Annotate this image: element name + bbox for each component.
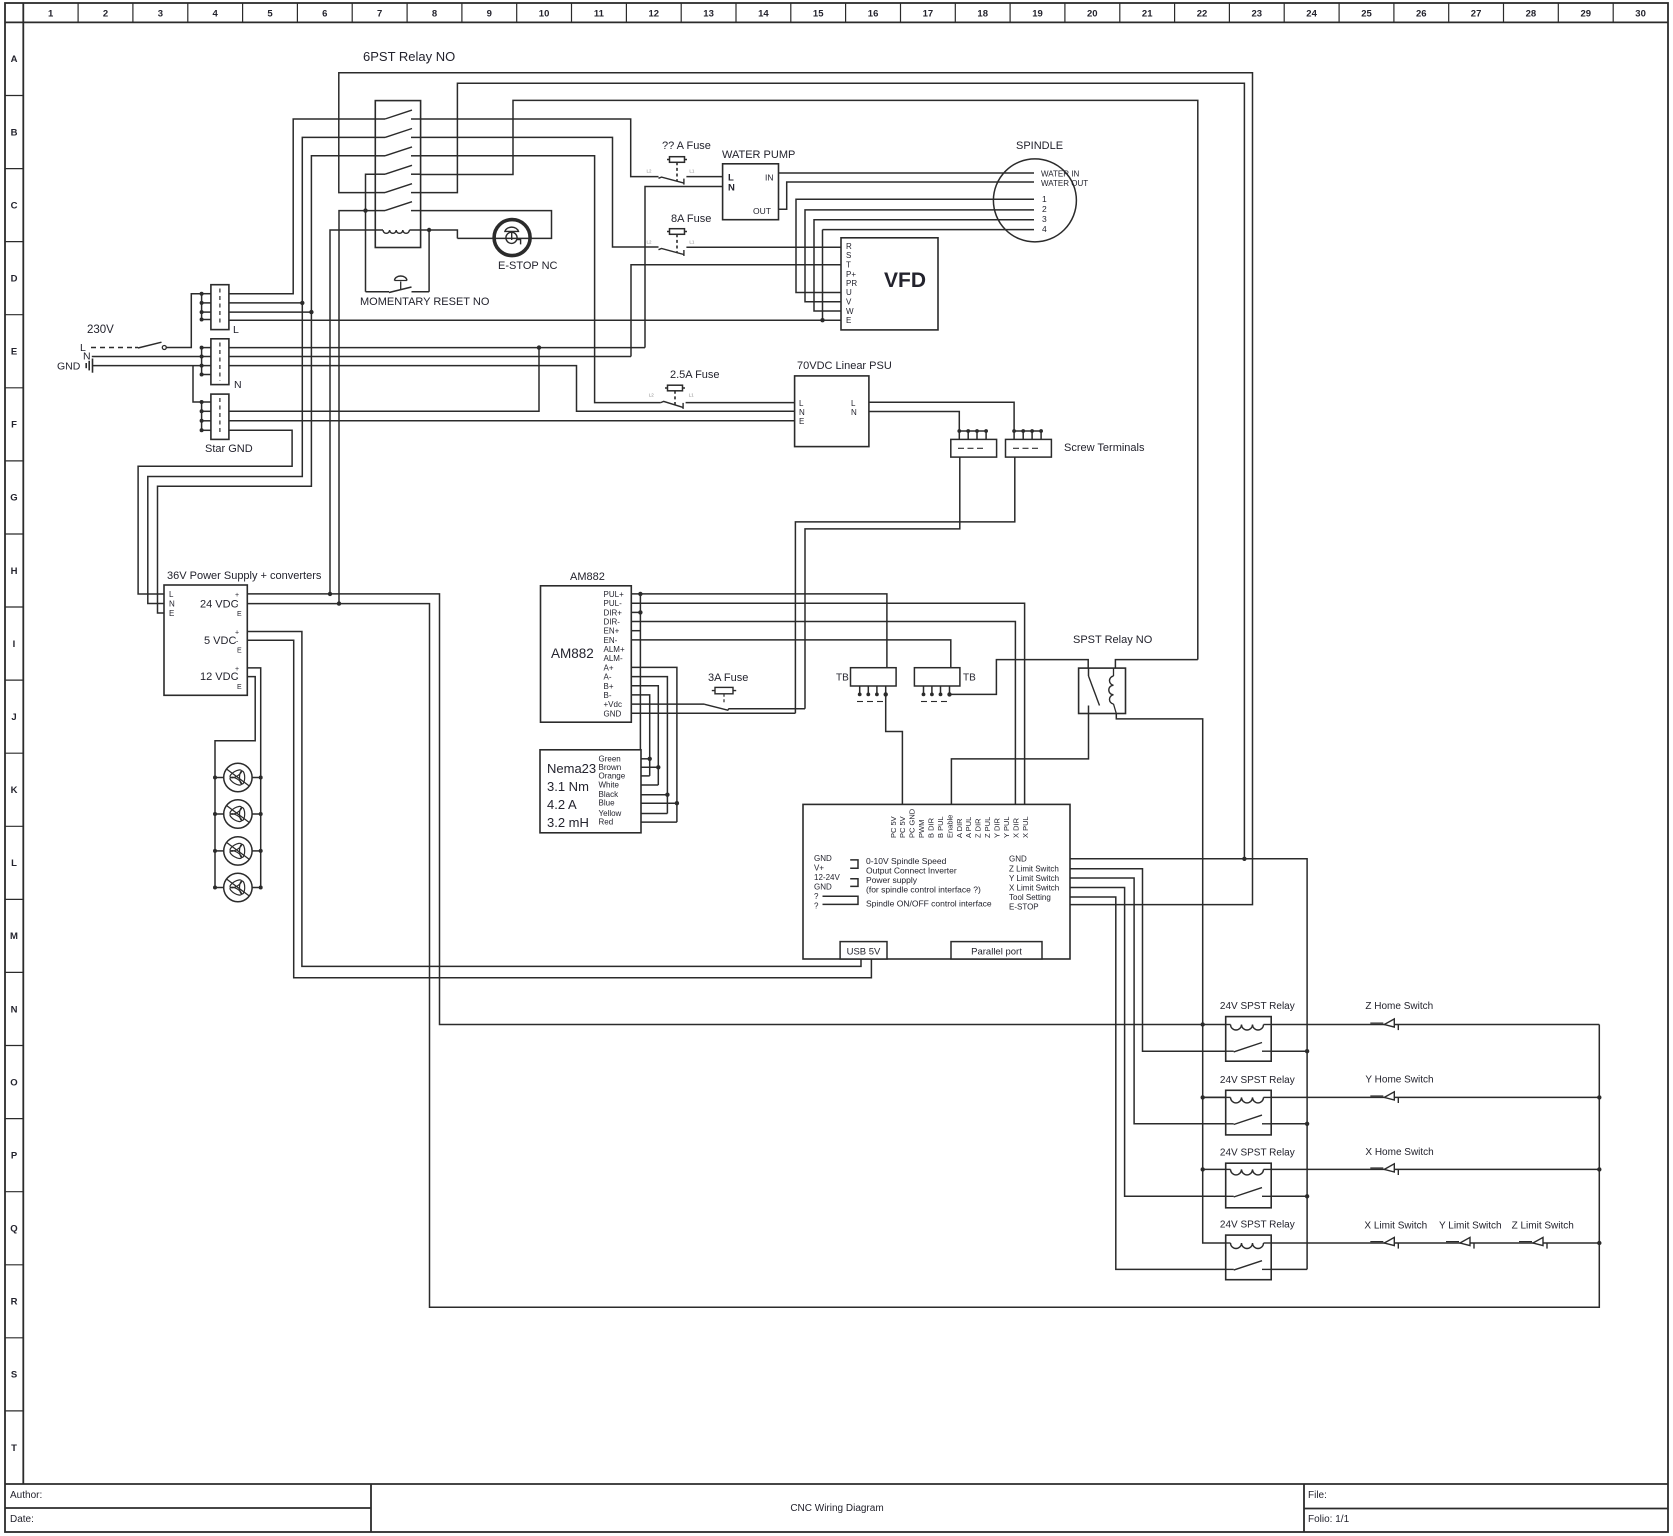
wire relay1 contact out (1271, 1050, 1307, 1052)
svg-text:+: + (235, 630, 239, 637)
wire VFD W to spindle 3 (814, 220, 1034, 311)
wire 6PST contact6 left to 24VDC minus (339, 211, 375, 604)
svg-text:GND: GND (604, 709, 622, 718)
wire 6PST coil out to E-STOP (409, 230, 457, 238)
svg-text:L: L (233, 324, 239, 336)
svg-text:Folio: 1/1: Folio: 1/1 (1308, 1514, 1350, 1525)
svg-text:13: 13 (703, 9, 714, 20)
wire ??A fuse to water pump L (686, 176, 722, 178)
component 36V Power Supply + converters (164, 570, 322, 695)
svg-text:N: N (83, 351, 91, 363)
svg-text:5: 5 (267, 9, 273, 20)
svg-text:O: O (10, 1077, 17, 1088)
svg-text:Z DIR: Z DIR (974, 818, 983, 838)
svg-text:6: 6 (322, 9, 327, 20)
component Parallel port (951, 942, 1042, 959)
wire AM882 DIR- to breakout X DIR (631, 622, 1015, 805)
svg-text:16: 16 (868, 9, 879, 20)
svg-text:11: 11 (594, 9, 605, 20)
svg-text:10: 10 (539, 9, 550, 20)
wire N terminal pin1 row (229, 347, 645, 349)
svg-text:N: N (234, 379, 242, 391)
svg-text:N: N (799, 408, 805, 417)
wire breakout X Limit Switch to relay3 contact (1070, 888, 1226, 1197)
wire momentary reset left riser to contact4 (366, 174, 376, 292)
svg-text:L: L (11, 858, 17, 869)
svg-text:N: N (169, 600, 175, 609)
component Nema23 stepper motor (540, 750, 641, 833)
wire Star GND pin2 riser to N row (229, 348, 539, 412)
wire 5VDC minus to USB 5V (247, 640, 871, 978)
svg-text:W: W (846, 307, 854, 316)
svg-text:M: M (10, 931, 18, 942)
wire mains GND row (93, 365, 202, 367)
svg-text:L2: L2 (649, 393, 655, 398)
wire AM882 A- to Nema23 Black/Yellow (631, 677, 667, 814)
svg-text:B PUL: B PUL (936, 816, 945, 838)
svg-text:A DIR: A DIR (955, 818, 964, 838)
svg-text:22: 22 (1197, 9, 1208, 20)
svg-text:L1: L1 (689, 240, 695, 245)
svg-text:Power supply: Power supply (866, 875, 918, 885)
component SPINDLE (993, 140, 1088, 242)
svg-text:PUL+: PUL+ (604, 590, 625, 599)
svg-text:AM882: AM882 (551, 646, 594, 661)
svg-text:B+: B+ (604, 682, 614, 691)
svg-text:(for spindle control interface: (for spindle control interface ?) (866, 885, 981, 895)
component USB 5V port (840, 942, 887, 959)
wire relay4 contact out (1271, 1268, 1307, 1270)
svg-text:WATER IN: WATER IN (1041, 170, 1079, 179)
wire W2 6PST contact5 right loop to breakout GND (421, 83, 1245, 859)
svg-text:T: T (11, 1443, 17, 1454)
svg-text:A: A (11, 54, 18, 65)
wire 6PST contact1 left to L terminal pin1 (229, 119, 375, 294)
svg-text:2.5A Fuse: 2.5A Fuse (670, 369, 720, 381)
wire AM882 B+ to Nema23 Brown/White (631, 686, 658, 785)
wire AM882 A+ to Nema23 Blue/Red (631, 667, 677, 822)
wire 6PST contact1 to ?? A fuse (421, 119, 659, 177)
svg-text:3.2 mH: 3.2 mH (547, 815, 589, 830)
wire breakout Z Limit Switch to relay1 contact (1070, 869, 1226, 1051)
svg-text:28: 28 (1526, 9, 1537, 20)
relay 24V SPST Relay 2 (1220, 1075, 1295, 1135)
svg-text:N: N (728, 183, 735, 194)
svg-text:24V SPST Relay: 24V SPST Relay (1220, 1148, 1295, 1159)
svg-text:R: R (11, 1297, 18, 1308)
svg-text:+: + (235, 592, 239, 599)
svg-text:H: H (11, 566, 18, 577)
component U2 VFD (841, 238, 938, 330)
svg-text:X DIR: X DIR (1011, 817, 1020, 838)
svg-text:24V SPST Relay: 24V SPST Relay (1220, 1075, 1295, 1086)
wire Nema23 Brown stub (641, 766, 658, 768)
wire N terminal pin2 row to VFD S riser (229, 356, 631, 358)
wire relay4 coil to limit switch chain (1271, 1242, 1599, 1244)
wire Nema23 Yellow stub (641, 813, 667, 815)
component screw terminal ST1 (951, 429, 997, 457)
svg-text:SPST Relay NO: SPST Relay NO (1073, 634, 1153, 646)
svg-text:GND: GND (814, 883, 832, 892)
svg-text:8: 8 (432, 9, 437, 20)
wire AM882 DIR+ stub (631, 611, 640, 613)
svg-text:E-STOP NC: E-STOP NC (498, 260, 558, 272)
svg-text:EN+: EN+ (604, 627, 620, 636)
wire W1 6PST contact5 left loop to breakout E-STOP (339, 73, 1253, 905)
switch mains disconnect (135, 342, 166, 349)
svg-text:OUT: OUT (753, 206, 771, 216)
svg-text:24 VDC: 24 VDC (200, 599, 239, 611)
svg-text:27: 27 (1471, 9, 1482, 20)
svg-text:3.1 Nm: 3.1 Nm (547, 779, 589, 794)
svg-text:E: E (169, 609, 174, 618)
svg-text:Z Limit Switch: Z Limit Switch (1512, 1221, 1574, 1232)
svg-text:S: S (11, 1370, 17, 1381)
fuse F2 8A (647, 229, 695, 256)
wire AM882 EN- to TB2 (631, 640, 951, 668)
svg-text:SPINDLE: SPINDLE (1016, 140, 1063, 152)
svg-text:PR: PR (846, 279, 857, 288)
wire breakout Tool Setting to relay4 contact (1070, 897, 1226, 1269)
svg-text:3A Fuse: 3A Fuse (708, 672, 748, 684)
wire W3 6PST contact4 loop to SPST relay coil (421, 100, 1198, 659)
svg-text:3: 3 (158, 9, 163, 20)
wire AM882 PUL+ to TB1 and breakout PC 5V (631, 594, 887, 668)
svg-text:ALM+: ALM+ (604, 645, 625, 654)
svg-text:Z Home Switch: Z Home Switch (1365, 1001, 1433, 1012)
svg-text:Red: Red (599, 818, 614, 827)
wire 70VDC PSU L out to screw terminal 2 (869, 402, 1014, 431)
svg-text:EN-: EN- (604, 636, 618, 645)
wire 6PST contact2 to 8A fuse (421, 137, 659, 247)
svg-text:F: F (11, 420, 17, 431)
wire 2.5A fuse to 70VDC PSU L (686, 402, 795, 404)
svg-text:V: V (846, 298, 852, 307)
svg-text:2: 2 (1042, 204, 1047, 214)
svg-text:Screw Terminals: Screw Terminals (1064, 442, 1145, 454)
wire momentary reset right to coil node (428, 230, 430, 292)
wire TB2 pin4 to SPST relay switch (949, 686, 951, 694)
wire water pump N to N row (645, 187, 723, 348)
wire breakout Y Limit Switch to relay2 contact (1070, 878, 1226, 1124)
wire breakout GND row to relay return trunk (1070, 859, 1307, 1270)
svg-text:N: N (11, 1004, 18, 1015)
svg-text:E: E (11, 347, 17, 358)
svg-text:24V SPST Relay: 24V SPST Relay (1220, 1220, 1295, 1231)
wire VFD S to N row riser (631, 265, 841, 357)
svg-text:Output Connect Inverter: Output Connect Inverter (866, 866, 957, 876)
svg-text:B-: B- (604, 691, 612, 700)
relay 24V SPST Relay 1 (1220, 1001, 1295, 1061)
wire 6PST contact3 left via L terminal pin3 to 36V PSU E (158, 156, 376, 613)
wire Nema23 White stub (641, 784, 658, 786)
svg-text:?: ? (814, 892, 819, 901)
svg-text:PC GND: PC GND (908, 808, 917, 838)
wire 24V relay2 coil stub (1203, 1096, 1226, 1098)
svg-text:23: 23 (1252, 9, 1263, 20)
svg-text:E-STOP: E-STOP (1009, 903, 1039, 912)
wire mains L to L terminal (166, 294, 201, 348)
svg-text:15: 15 (813, 9, 824, 20)
svg-text:Star GND: Star GND (205, 443, 253, 455)
svg-text:9: 9 (487, 9, 492, 20)
wire mains L dashed lead (91, 347, 135, 349)
svg-text:GND: GND (1009, 855, 1027, 864)
component 70VDC Linear PSU (795, 360, 892, 447)
wire relay2 contact out (1271, 1123, 1307, 1125)
svg-text:G: G (10, 493, 17, 504)
svg-text:2: 2 (103, 9, 108, 20)
svg-text:X Home Switch: X Home Switch (1365, 1147, 1433, 1158)
svg-text:P: P (11, 1150, 18, 1161)
svg-text:Blue: Blue (599, 799, 616, 808)
svg-text:8A Fuse: 8A Fuse (671, 213, 711, 225)
svg-text:J: J (11, 712, 16, 723)
svg-text:T: T (846, 261, 851, 270)
svg-text:Parallel port: Parallel port (971, 947, 1022, 958)
svg-text:+: + (235, 666, 239, 673)
svg-text:AM882: AM882 (570, 571, 605, 583)
svg-text:E: E (799, 417, 804, 426)
wire 6PST coil left to 24VDC plus (330, 230, 383, 594)
svg-text:N: N (851, 408, 857, 417)
wire relay2 coil to Y home switch row (1271, 1096, 1599, 1098)
terminal block TB1 (836, 668, 896, 702)
wire GND row to 70VDC PSU N riser (229, 366, 795, 412)
wire 3A fuse out to screw terminal riser (728, 708, 805, 710)
svg-text:18: 18 (977, 9, 988, 20)
fan M4 (213, 873, 263, 901)
svg-text:PWM: PWM (917, 820, 926, 838)
svg-text:V+: V+ (814, 864, 824, 873)
svg-text:0-10V Spindle Speed: 0-10V Spindle Speed (866, 856, 947, 866)
fan M3 (213, 837, 263, 865)
svg-text:E: E (237, 648, 242, 655)
component WATER PUMP (722, 149, 795, 220)
relay K1 6PST body (375, 101, 420, 248)
svg-text:Nema23: Nema23 (547, 761, 596, 776)
svg-text:L1: L1 (689, 393, 695, 398)
svg-text:30: 30 (1635, 9, 1646, 20)
wire 12VDC plus to fan right rail (247, 668, 260, 888)
fuse F4 3A (705, 687, 737, 710)
svg-text:17: 17 (923, 9, 934, 20)
wire ST2 down to AM882 GND row (795, 457, 1014, 713)
svg-text:Author:: Author: (10, 1490, 42, 1501)
wire mains GND down to Star GND (193, 366, 202, 402)
svg-text:GND: GND (814, 854, 832, 863)
svg-text:12: 12 (649, 9, 660, 20)
svg-text:21: 21 (1142, 9, 1153, 20)
svg-text:CNC Wiring Diagram: CNC Wiring Diagram (790, 1503, 883, 1514)
wire SPST relay coil minus to 24V relay trunk (1116, 714, 1225, 1244)
svg-text:Y PUL: Y PUL (1002, 816, 1011, 838)
svg-text:WATER OUT: WATER OUT (1041, 179, 1088, 188)
svg-text:Q: Q (10, 1224, 17, 1235)
wire AM882 +Vdc to 3A fuse (631, 703, 704, 705)
wire AM882 GND to ST2 riser (631, 712, 795, 714)
wire AM882 EN+ stub (631, 630, 640, 632)
svg-text:?? A Fuse: ?? A Fuse (662, 140, 711, 152)
svg-text:TB: TB (836, 673, 849, 684)
svg-text:B DIR: B DIR (927, 817, 936, 838)
relay SPST Relay NO (1073, 634, 1153, 714)
svg-text:L: L (851, 399, 856, 408)
svg-text:L: L (169, 590, 174, 599)
fan M1 (213, 763, 263, 791)
svg-text:20: 20 (1087, 9, 1098, 20)
svg-text:Y Home Switch: Y Home Switch (1365, 1074, 1433, 1085)
svg-text:29: 29 (1581, 9, 1592, 20)
svg-text:1: 1 (48, 9, 54, 20)
component AM882 stepper driver (541, 571, 632, 722)
wire 70VDC PSU N out to screw terminal 1 (869, 412, 959, 432)
svg-text:TB: TB (963, 673, 976, 684)
svg-text:PC 5V: PC 5V (889, 816, 898, 838)
svg-text:+Vdc: +Vdc (604, 700, 622, 709)
svg-text:Tool Setting: Tool Setting (1009, 893, 1051, 902)
terminal block TB2 (914, 668, 976, 702)
wire AM882 B- to Nema23 Green/Orange (631, 695, 649, 776)
svg-text:24: 24 (1306, 9, 1317, 20)
svg-text:R: R (846, 242, 852, 251)
svg-text:DIR-: DIR- (604, 618, 621, 627)
wire SPST relay switch out to breakout Enable (951, 714, 1088, 805)
svg-text:Y Limit Switch: Y Limit Switch (1439, 1221, 1502, 1232)
wire water pump OUT to spindle WATER OUT (779, 182, 1035, 209)
wire relay2 coil row (1203, 1096, 1226, 1098)
svg-text:19: 19 (1032, 9, 1043, 20)
svg-text:Z Limit Switch: Z Limit Switch (1009, 865, 1059, 874)
svg-text:D: D (11, 274, 18, 285)
wire Star GND pin3 row to 70VDC PSU E (229, 420, 795, 422)
wire AM882 enable bar (639, 594, 641, 833)
wire Nema23 Blue stub (641, 802, 677, 804)
svg-text:L: L (799, 399, 804, 408)
svg-text:X Limit Switch: X Limit Switch (1364, 1221, 1427, 1232)
svg-text:USB 5V: USB 5V (847, 947, 881, 958)
svg-text:?: ? (814, 902, 819, 911)
svg-text:X Limit Switch: X Limit Switch (1009, 884, 1059, 893)
svg-text:File:: File: (1308, 1490, 1327, 1501)
wire AM882 PUL- to breakout X PUL (631, 603, 1024, 804)
svg-text:Y DIR: Y DIR (993, 818, 1002, 838)
svg-text:C: C (11, 200, 18, 211)
wire earth row to VFD E (229, 319, 841, 321)
wire Nema23 Orange stub (641, 775, 650, 777)
wire ST1 down to 3A fuse feed (805, 457, 960, 709)
svg-text:4: 4 (213, 9, 219, 20)
svg-text:A PUL: A PUL (964, 817, 973, 838)
svg-text:L2: L2 (647, 168, 653, 173)
svg-text:230V: 230V (87, 324, 114, 336)
svg-text:Date:: Date: (10, 1514, 34, 1525)
terminal block Star GND (200, 394, 253, 455)
svg-text:K: K (11, 785, 18, 796)
svg-text:Enable: Enable (945, 815, 954, 838)
svg-text:3: 3 (1042, 214, 1047, 224)
svg-text:DIR+: DIR+ (604, 608, 623, 617)
wire 5VDC plus to USB 5V (247, 632, 861, 967)
wire 6PST contact2 left via L terminal pin2 to 36V PSU N (148, 137, 375, 603)
wire 6PST contact3 to 2.5A fuse (421, 156, 661, 403)
svg-text:5 VDC: 5 VDC (204, 635, 236, 647)
svg-text:P+: P+ (846, 270, 856, 279)
svg-text:4.2 A: 4.2 A (547, 797, 577, 812)
svg-text:A-: A- (604, 673, 612, 682)
svg-text:24V SPST Relay: 24V SPST Relay (1220, 1001, 1295, 1012)
svg-text:VFD: VFD (884, 269, 926, 292)
svg-text:U: U (846, 288, 852, 297)
svg-text:I: I (13, 639, 16, 650)
wire mains N (92, 356, 202, 358)
wire 8A fuse to VFD R (686, 246, 841, 248)
wire 24V relay3 coil stub (1203, 1168, 1226, 1170)
wire SPST relay coil plus riser (1115, 660, 1197, 669)
wire Nema23 Red stub (641, 821, 677, 823)
svg-text:12 VDC: 12 VDC (200, 671, 239, 683)
wire relay1 coil to Z home switch row (1271, 1024, 1599, 1026)
switch MOMENTARY RESET NO (366, 276, 430, 293)
svg-text:Spindle ON/OFF control interfa: Spindle ON/OFF control interface (866, 899, 992, 909)
svg-text:E: E (846, 316, 851, 325)
svg-text:ALM-: ALM- (604, 654, 623, 663)
svg-text:Z PUL: Z PUL (983, 817, 992, 838)
switch E-STOP NC (494, 220, 530, 256)
svg-text:White: White (599, 781, 620, 790)
svg-text:MOMENTARY RESET NO: MOMENTARY RESET NO (360, 296, 490, 308)
wire 6PST contact6 to E-STOP loop (421, 211, 552, 239)
svg-text:Y Limit Switch: Y Limit Switch (1009, 874, 1059, 883)
component screw terminal ST2 (1006, 429, 1052, 457)
wire spindle 4 riser to earth row (823, 229, 1035, 231)
svg-text:GND: GND (57, 361, 81, 373)
wire water pump IN to spindle WATER IN (779, 172, 1035, 174)
wire Nema23 Black stub (641, 794, 667, 796)
svg-text:12-24V: 12-24V (814, 873, 840, 882)
svg-text:36V Power Supply + converters: 36V Power Supply + converters (167, 570, 322, 582)
svg-text:WATER PUMP: WATER PUMP (722, 149, 795, 161)
svg-text:B: B (11, 127, 18, 138)
svg-text:E: E (237, 684, 242, 691)
wire VFD V to spindle 2 (805, 210, 1034, 302)
wire relay3 contact out (1271, 1195, 1307, 1197)
wire 24VDC minus to bottom return rail (247, 604, 1599, 1308)
terminal block N (200, 339, 242, 391)
svg-text:S: S (846, 251, 851, 260)
wire VFD U to spindle 1 (796, 199, 1034, 292)
wire Nema23 Green stub (641, 758, 650, 760)
component breakout board (803, 804, 1070, 959)
svg-text:X PUL: X PUL (1021, 816, 1030, 838)
wire 12VDC minus to fan left rail (215, 677, 255, 888)
svg-text:14: 14 (758, 9, 769, 20)
svg-text:26: 26 (1416, 9, 1427, 20)
svg-text:4: 4 (1042, 224, 1047, 234)
relay 24V SPST Relay 3 (1220, 1148, 1295, 1208)
svg-text:A+: A+ (604, 663, 614, 672)
svg-text:7: 7 (377, 9, 382, 20)
svg-text:L2: L2 (647, 240, 653, 245)
svg-text:Orange: Orange (599, 771, 626, 780)
fuse F3 2.5A (649, 385, 694, 409)
wire relay3 coil to X home switch row (1271, 1168, 1599, 1170)
svg-text:IN: IN (765, 173, 774, 183)
relay 24V SPST Relay 4 (1220, 1220, 1295, 1280)
svg-text:E: E (237, 611, 242, 618)
svg-text:L1: L1 (689, 168, 695, 173)
svg-text:70VDC Linear PSU: 70VDC Linear PSU (797, 360, 892, 372)
